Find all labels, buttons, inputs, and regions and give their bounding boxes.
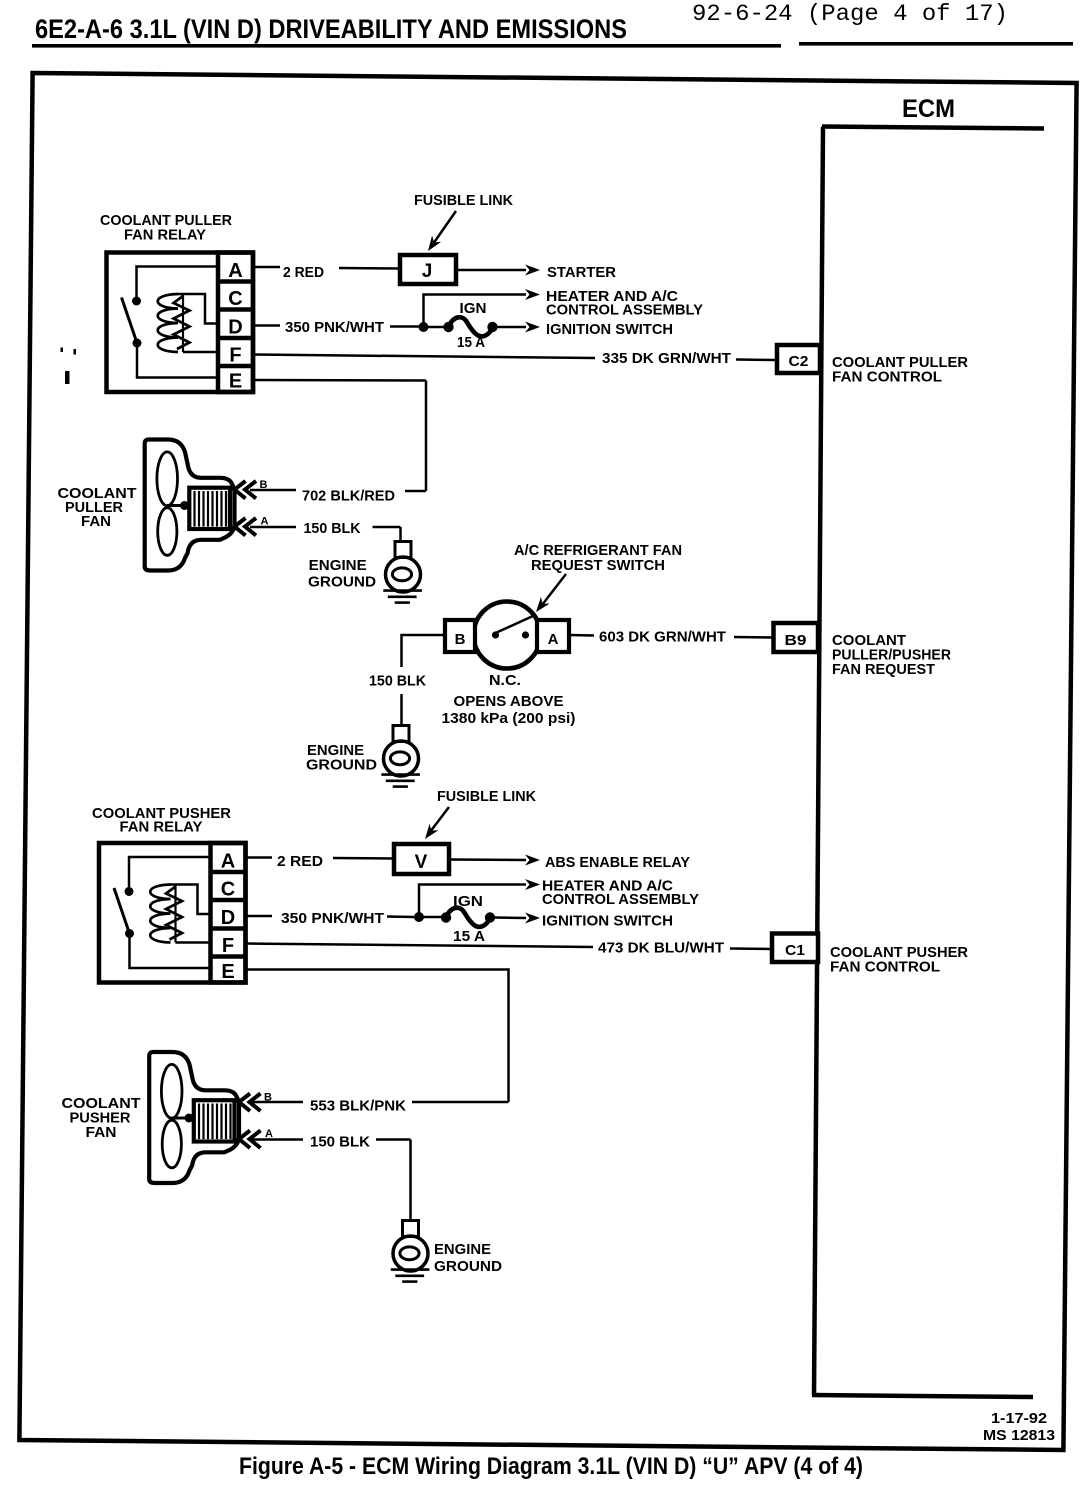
svg-text:350 PNK/WHT: 350 PNK/WHT	[281, 910, 384, 927]
svg-text:FAN CONTROL: FAN CONTROL	[832, 369, 942, 386]
relay K1 coolant puller switch contact bottom	[133, 339, 142, 348]
coolant puller fan relay label	[100, 212, 232, 244]
svg-text:IGN: IGN	[460, 300, 487, 317]
wire label 2 RED pusher	[277, 853, 323, 870]
fuse label IGN	[460, 300, 487, 317]
wire V to ABS ENABLE RELAY	[449, 855, 540, 866]
svg-text:FAN RELAY: FAN RELAY	[120, 819, 203, 836]
ECM label	[902, 95, 955, 123]
fusible link J pointer arrow	[423, 211, 456, 254]
ECM C2 function label	[832, 354, 968, 386]
relay K2 coolant pusher switch contact bottom	[125, 929, 134, 938]
ECM terminal B9	[774, 623, 819, 652]
junction node splice pusher	[414, 912, 424, 922]
fuse label 15 A	[457, 334, 485, 351]
svg-text:C: C	[221, 879, 235, 901]
svg-text:FAN CONTROL: FAN CONTROL	[830, 959, 940, 976]
engine ground G3 ring terminal	[393, 1221, 428, 1272]
wire pusher fan A 150 BLK to engine ground	[249, 1140, 411, 1222]
svg-text:FAN RELAY: FAN RELAY	[124, 227, 206, 244]
svg-text:FUSIBLE LINK: FUSIBLE LINK	[414, 192, 513, 209]
fusible link J box	[400, 255, 456, 284]
svg-text:B: B	[264, 1092, 272, 1104]
svg-text:D: D	[228, 317, 242, 339]
wire label 150 BLK switch	[369, 673, 426, 690]
svg-text:E: E	[221, 961, 234, 983]
relay K2 coolant pusher internal wire pin A to switch	[129, 857, 211, 892]
svg-text:350 PNK/WHT: 350 PNK/WHT	[285, 319, 384, 336]
svg-text:2 RED: 2 RED	[283, 264, 324, 281]
engine ground G3 ground hatch	[391, 1270, 430, 1282]
svg-text:FAN: FAN	[86, 1124, 117, 1141]
svg-text:335 DK GRN/WHT: 335 DK GRN/WHT	[602, 350, 731, 367]
ABS ENABLE RELAY label	[545, 854, 690, 871]
svg-text:ENGINE: ENGINE	[309, 557, 367, 574]
wire pin A to fusible link J (2 RED)	[253, 267, 400, 269]
svg-text:IGNITION SWITCH: IGNITION SWITCH	[546, 321, 673, 338]
wire label 603 DK GRN/WHT	[599, 629, 726, 646]
relay K2 coolant pusher pin C	[221, 879, 235, 901]
svg-text:FUSIBLE LINK: FUSIBLE LINK	[437, 788, 536, 805]
wire J to STARTER	[456, 265, 540, 276]
relay K2 coolant pusher pin connector column	[211, 843, 246, 983]
svg-text:150 BLK: 150 BLK	[369, 673, 426, 690]
wire label 150 BLK	[304, 520, 361, 537]
wire switch A 603 DK GRN/WHT to ECM B9	[569, 635, 774, 638]
svg-text:1380 kPa (200 psi): 1380 kPa (200 psi)	[442, 710, 576, 727]
ECM box bottom edge	[812, 1395, 1033, 1397]
pressure switch S1 body	[474, 602, 541, 669]
doc number MS 12813	[983, 1427, 1055, 1444]
switch terminal B box	[445, 620, 475, 652]
fan M1 coolant puller blade lower	[158, 508, 177, 556]
relay K1 coolant puller pin A	[228, 260, 242, 282]
engine ground G1 label	[308, 557, 376, 591]
svg-text:ECM: ECM	[902, 95, 955, 123]
svg-text:A: A	[265, 1128, 273, 1140]
svg-text:150 BLK: 150 BLK	[304, 520, 361, 537]
relay K2 coolant pusher switch blade	[114, 888, 130, 934]
svg-text:A: A	[548, 631, 559, 648]
relay K2 coolant pusher internal wire switch to pin E	[130, 934, 211, 969]
fusible link J label	[414, 192, 513, 209]
fan M1 coolant puller motor	[189, 488, 230, 529]
wire label 350 PNK/WHT	[285, 319, 384, 336]
svg-text:F: F	[222, 935, 234, 957]
engine ground G1 ground hatch	[383, 591, 422, 603]
fan M1 coolant puller blade upper	[157, 452, 178, 506]
svg-text:15 A: 15 A	[453, 928, 485, 945]
relay K2 coolant pusher pin E	[221, 961, 234, 983]
fan M2 coolant pusher blade lower	[162, 1120, 181, 1168]
svg-text:C1: C1	[785, 942, 805, 959]
relay K1 coolant puller internal wire pin A to switch	[137, 267, 219, 302]
wire label 702 BLK/RED	[302, 488, 395, 505]
relay K1 coolant puller internal wire coil to pin D	[178, 294, 218, 324]
fusible link V label	[437, 788, 536, 805]
ECM C1 function label	[830, 944, 968, 976]
coolant pusher fan relay label	[92, 805, 231, 836]
relay K1 coolant puller coil	[158, 294, 190, 352]
svg-text:GROUND: GROUND	[308, 574, 376, 591]
relay K2 coolant pusher switch contact top	[125, 887, 134, 896]
relay K2 coolant pusher internal wire coil to pin D	[171, 885, 211, 915]
ECM B9 function label	[832, 632, 951, 678]
switch terminal A box	[537, 620, 569, 652]
relay K1 coolant puller pin D	[228, 317, 242, 339]
svg-text:702 BLK/RED: 702 BLK/RED	[302, 488, 395, 505]
svg-text:D: D	[221, 907, 235, 929]
wire label 2 RED	[283, 264, 324, 281]
ECM terminal C1	[772, 934, 818, 963]
fan M2 coolant pusher shroud outline	[149, 1052, 239, 1183]
wire pusher pin F 473 DK BLU/WHT to ECM C1	[246, 944, 773, 950]
fan M1 coolant puller connector chevron B	[235, 479, 268, 499]
relay K1 coolant puller pin E	[229, 371, 242, 393]
fuse IGN 15 A pusher	[423, 908, 495, 927]
engine ground G3 label	[434, 1241, 502, 1275]
wire switch B to ground (150 BLK)	[402, 635, 446, 728]
fan M1 coolant puller shroud outline	[145, 440, 235, 571]
OPENS ABOVE label	[454, 693, 564, 710]
svg-text:GROUND: GROUND	[434, 1258, 502, 1275]
svg-text:FAN: FAN	[81, 513, 111, 530]
wire pusher pin D 350 PNK/WHT	[246, 916, 415, 917]
switch label pointer arrow	[532, 574, 566, 615]
fan M1 coolant puller hub shaft	[167, 501, 189, 510]
ECM terminal C2	[777, 345, 820, 373]
relay K2 coolant pusher pin F	[222, 935, 234, 957]
relay K1 coolant puller body	[107, 253, 254, 393]
engine ground G2 label	[306, 742, 377, 774]
relay K1 coolant puller internal wire switch to pin E	[137, 343, 218, 378]
wire label 473 DK BLU/WHT	[598, 940, 724, 957]
wire pin D 350 PNK/WHT	[253, 326, 419, 327]
N.C. label	[489, 672, 521, 689]
page header title	[35, 14, 627, 44]
relay K1 coolant puller pin connector column	[218, 253, 253, 393]
fan M2 coolant pusher connector chevron A	[239, 1128, 273, 1148]
relay K2 coolant pusher pin A	[221, 851, 235, 873]
svg-text:15 A: 15 A	[457, 334, 485, 351]
svg-text:CONTROL ASSEMBLY: CONTROL ASSEMBLY	[542, 891, 699, 908]
wire fuse to IGNITION SWITCH pusher	[495, 913, 540, 924]
svg-text:B9: B9	[785, 632, 807, 649]
svg-text:J: J	[422, 261, 433, 282]
coolant pusher fan label	[62, 1095, 141, 1141]
relay K1 coolant puller pin C	[228, 288, 242, 310]
fan M2 coolant pusher hub shaft	[172, 1114, 194, 1123]
svg-text:B: B	[455, 631, 466, 648]
fusible link V pointer arrow	[421, 807, 449, 842]
fuse label 15 A pusher	[453, 928, 485, 945]
svg-text:N.C.: N.C.	[489, 672, 521, 689]
header underline left	[32, 44, 781, 48]
wire label 335 DK GRN/WHT	[602, 350, 731, 367]
engine ground G2 ring terminal	[384, 726, 419, 777]
wire pin F 335 DK GRN/WHT to ECM C2	[253, 355, 777, 361]
svg-text:A: A	[221, 851, 235, 873]
svg-text:OPENS ABOVE: OPENS ABOVE	[454, 693, 564, 710]
wire label 150 BLK pusher	[310, 1134, 370, 1151]
fuse IGN 15 A	[428, 317, 498, 336]
svg-text:603 DK GRN/WHT: 603 DK GRN/WHT	[599, 629, 726, 646]
relay K1 coolant puller internal wire coil to pin F	[183, 351, 218, 354]
1380 kPa label	[442, 710, 576, 727]
fan M2 coolant pusher motor	[194, 1100, 235, 1141]
wire label 553 BLK/PNK	[310, 1098, 406, 1115]
svg-text:V: V	[415, 852, 428, 873]
fan M2 coolant pusher blade upper	[161, 1064, 182, 1118]
svg-text:473 DK BLU/WHT: 473 DK BLU/WHT	[598, 940, 724, 957]
ECM box left edge	[814, 127, 823, 1396]
svg-text:A: A	[228, 260, 242, 282]
page number header	[692, 1, 1008, 27]
A/C refrigerant fan request switch label	[514, 542, 682, 574]
fuse label IGN pusher	[453, 893, 483, 910]
date stamp 1-17-92	[991, 1410, 1047, 1427]
svg-text:92-6-24 (Page 4 of 17): 92-6-24 (Page 4 of 17)	[692, 1, 1008, 27]
engine ground G2 ground hatch	[381, 775, 420, 787]
relay K1 coolant puller switch blade	[122, 298, 138, 344]
header underline right	[799, 42, 1073, 46]
wire label 350 PNK/WHT pusher	[281, 910, 384, 927]
wire pusher pin E to pusher fan (553 BLK/PNK)	[246, 970, 509, 1103]
svg-text:ENGINE: ENGINE	[434, 1241, 491, 1258]
wire fuse to IGNITION SWITCH	[497, 322, 540, 333]
svg-text:1-17-92: 1-17-92	[991, 1410, 1047, 1427]
wire fan A 150 BLK to engine ground	[250, 527, 401, 542]
relay K2 coolant pusher coil	[150, 885, 182, 943]
relay K2 coolant pusher body	[99, 843, 246, 983]
svg-text:ABS ENABLE RELAY: ABS ENABLE RELAY	[545, 854, 690, 871]
IGNITION SWITCH label	[546, 321, 673, 338]
branch wire to HEATER AND A/C	[424, 289, 541, 327]
svg-text:MS 12813: MS 12813	[983, 1427, 1055, 1444]
wire pusher pin A to fusible link V (2 RED)	[246, 858, 395, 859]
figure caption	[239, 1453, 863, 1480]
branch wire to HEATER AND A/C pusher	[419, 879, 540, 917]
fan M1 coolant puller connector chevron A	[235, 516, 269, 536]
relay K2 coolant pusher pin D	[221, 907, 235, 929]
engine ground G1 ring terminal	[386, 542, 421, 593]
svg-text:B: B	[260, 479, 268, 491]
fan M2 coolant pusher connector chevron B	[239, 1092, 272, 1112]
relay K1 coolant puller switch contact top	[132, 297, 141, 306]
svg-text:A: A	[261, 516, 269, 528]
relay K1 coolant puller pin F	[229, 345, 241, 367]
fusible link V box	[394, 844, 449, 874]
svg-text:E: E	[229, 371, 242, 393]
STARTER label	[547, 264, 616, 281]
svg-text:CONTROL ASSEMBLY: CONTROL ASSEMBLY	[546, 302, 703, 319]
svg-text:2 RED: 2 RED	[277, 853, 323, 870]
svg-text:C2: C2	[789, 353, 809, 370]
svg-text:IGNITION SWITCH: IGNITION SWITCH	[542, 913, 673, 930]
svg-text:C: C	[228, 288, 242, 310]
svg-text:FAN REQUEST: FAN REQUEST	[832, 661, 935, 678]
scan artifact marks	[61, 348, 77, 385]
HEATER AND A/C CONTROL ASSEMBLY label pusher	[542, 878, 699, 909]
svg-text:553 BLK/PNK: 553 BLK/PNK	[310, 1098, 406, 1115]
wire pin E to puller fan (702 BLK/RED)	[250, 380, 426, 491]
svg-text:Figure A-5 - ECM Wiring Diagra: Figure A-5 - ECM Wiring Diagram 3.1L (VI…	[239, 1453, 863, 1480]
svg-text:GROUND: GROUND	[306, 757, 377, 774]
HEATER AND A/C CONTROL ASSEMBLY label	[546, 288, 703, 319]
svg-text:IGN: IGN	[453, 893, 483, 910]
svg-text:6E2-A-6 3.1L (VIN D) DRIVEABIL: 6E2-A-6 3.1L (VIN D) DRIVEABILITY AND EM…	[35, 14, 627, 44]
svg-text:REQUEST SWITCH: REQUEST SWITCH	[531, 557, 665, 574]
coolant puller fan label	[58, 485, 137, 530]
svg-text:F: F	[229, 345, 241, 367]
junction node splice	[419, 322, 429, 332]
ECM box top edge	[822, 127, 1044, 129]
svg-text:150 BLK: 150 BLK	[310, 1134, 370, 1151]
svg-text:STARTER: STARTER	[547, 264, 616, 281]
pressure switch S1 contacts and blade	[492, 616, 533, 639]
relay K2 coolant pusher internal wire coil to pin F	[176, 941, 211, 944]
IGNITION SWITCH label pusher	[542, 913, 673, 930]
